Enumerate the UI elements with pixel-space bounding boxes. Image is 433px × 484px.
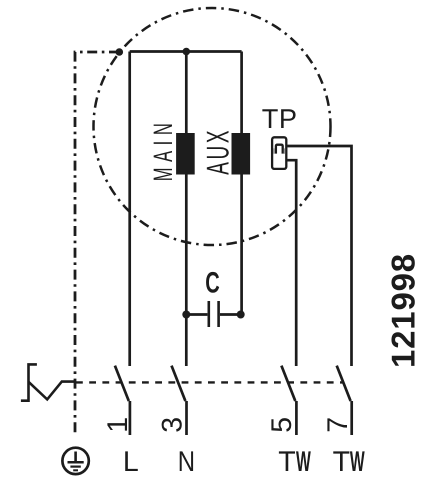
node: enclosure entry junction [116,48,124,56]
node: capacitor left junction [182,311,190,319]
earth bar long [68,461,84,464]
motor boundary circle M1 [94,8,331,245]
winding MAIN body [176,133,195,175]
wire top bus [130,50,242,53]
svg-text:N: N [178,446,195,478]
svg-text:W: W [350,446,365,478]
thermal trip lever symbol [21,364,37,400]
node: top bus junction [183,48,191,56]
switch 5 lower stub [295,401,298,435]
wire capacitor left lead [186,313,207,316]
wire right branch (AUX) [240,52,243,315]
wire middle branch (MAIN) [185,52,188,367]
wire TP to switch 7 [287,146,351,366]
earth bar middle [70,466,80,468]
svg-text:W: W [296,446,311,478]
wire TP to switch 5 [287,160,296,366]
svg-text:T: T [278,446,295,478]
winding AUX body [232,133,251,175]
TP contact detail [276,145,283,154]
switch 5 blade [281,366,295,401]
svg-text:5: 5 [266,417,298,433]
svg-text:T: T [333,446,350,478]
switch 1 blade [115,366,129,401]
switch 7 blade [337,366,351,401]
mechanical linkage (dashed) [76,381,344,383]
node: capacitor right junction [237,311,245,319]
enclosure boundary (dash-dot) [75,52,119,436]
wire left branch (L to bus) [128,52,131,367]
earth stem [74,452,77,462]
svg-text:L: L [123,446,139,478]
switch 3 blade [172,366,186,401]
trip zigzag [29,382,77,400]
svg-text:C: C [205,266,219,299]
svg-text:7: 7 [322,417,354,433]
earth bar short [73,469,78,471]
switch 3 lower stub [185,401,188,435]
svg-text:TP: TP [262,103,298,134]
svg-text:AUX: AUX [200,128,236,175]
svg-text:121998: 121998 [384,253,421,368]
svg-text:3: 3 [156,417,188,433]
switch 7 lower stub [350,401,353,435]
svg-text:1: 1 [102,417,134,433]
svg-text:MAIN: MAIN [148,118,178,182]
switch 1 lower stub [129,401,132,435]
wire capacitor right lead [220,313,242,316]
thermal protector TP body [272,137,286,169]
capacitor C plates [209,301,219,327]
protective earth circle [62,448,88,474]
TP contact side ticks [274,148,284,153]
